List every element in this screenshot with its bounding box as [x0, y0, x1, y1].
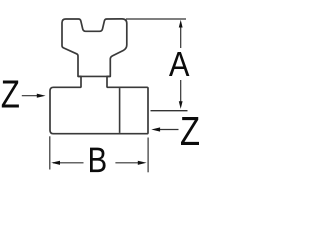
dimension B: right arrow line [115, 162, 143, 164]
dimension B: right arrowhead [138, 161, 147, 165]
label A [169, 52, 189, 76]
valve body [50, 87, 148, 133]
dimension B: left extension line [49, 136, 51, 169]
Z left arrowhead [37, 94, 46, 98]
label Z left [2, 81, 19, 108]
label B [90, 148, 106, 173]
valve handle and stem outline [62, 19, 127, 87]
dimension A: upper arrowhead [179, 20, 183, 28]
dimension A: top extension line [126, 18, 186, 20]
label Z right [181, 117, 199, 145]
dimension A: lower arrowhead [179, 101, 183, 109]
dimension B: left arrowhead [51, 161, 60, 165]
dimension B: left arrow line [53, 162, 84, 164]
bonnet bottom line [78, 75, 110, 77]
Z left arrow line [22, 95, 42, 97]
body/socket divider line [119, 88, 121, 133]
dimension A: upper arrow line [180, 23, 182, 48]
dimension B: right extension line [147, 138, 149, 173]
Z right arrowhead [151, 127, 160, 131]
dimension A: lower arrow line [180, 80, 182, 106]
Z right arrow line [155, 129, 179, 131]
dimension A: bottom extension line [151, 110, 188, 112]
